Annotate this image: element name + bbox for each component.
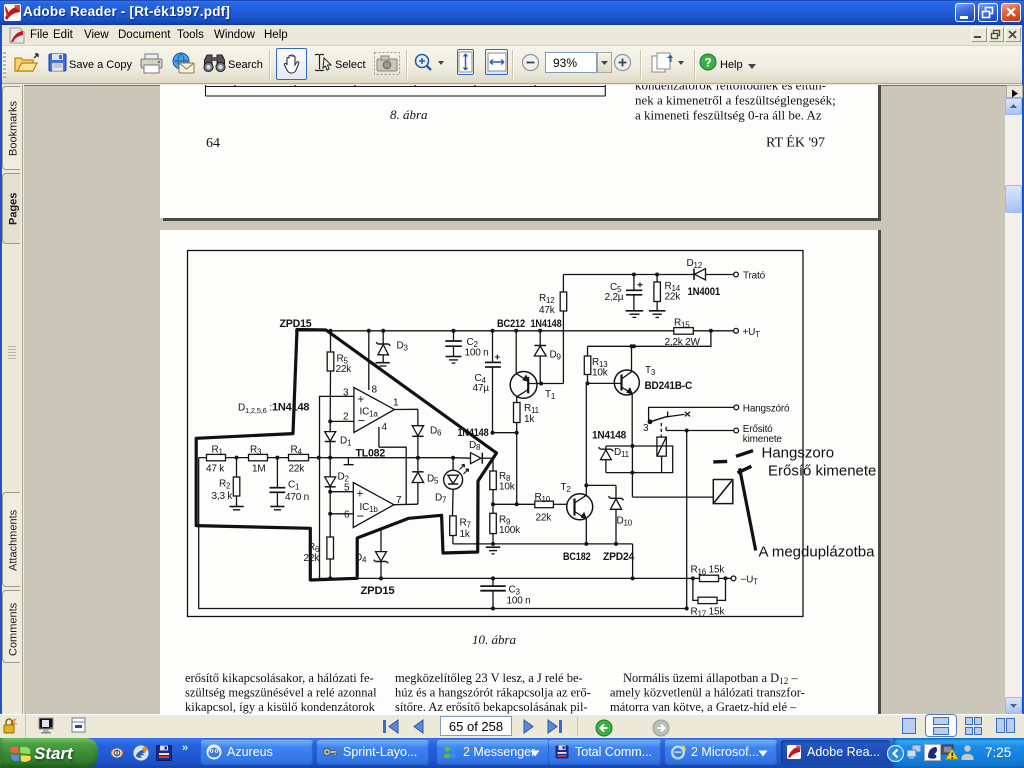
fit page btn <box>457 49 474 75</box>
wire: D11 / coil parallel box <box>606 446 673 473</box>
wire: top supply rail to D12 <box>563 274 693 276</box>
nav: prev page <box>410 718 426 740</box>
wire: T2 collector to D10 <box>586 484 616 486</box>
diode D5 1N4148 <box>412 458 423 505</box>
wire: Erősítő kimenete contact line <box>666 427 733 431</box>
svg-text:1N4001: 1N4001 <box>688 286 721 298</box>
svg-text:+UT: +UT <box>743 327 761 339</box>
svg-text:R12: R12 <box>539 293 555 305</box>
wire: R12 top vertical <box>562 275 564 293</box>
svg-text:22k: 22k <box>665 292 682 303</box>
svg-text:−UT: −UT <box>741 575 759 587</box>
svg-text:R4: R4 <box>291 445 303 457</box>
snapshot <box>374 52 400 80</box>
svg-text:megközelítőleg 23 V lesz, a J: megközelítőleg 23 V lesz, a J relé be- <box>395 671 583 685</box>
terminal +UT <box>734 328 739 333</box>
nav: forward view (disabled) <box>652 719 670 742</box>
terminal Trató <box>734 272 739 277</box>
wire: relay contact feed from Hangszóró line <box>649 407 734 420</box>
zoom-in tool + arrow <box>413 52 447 79</box>
wire: IC1b pin6 input <box>330 513 353 515</box>
resistor R13 <box>584 346 591 383</box>
svg-text:1N4148: 1N4148 <box>592 430 626 442</box>
svg-text:2,2µ: 2,2µ <box>605 292 624 303</box>
svg-text:D9: D9 <box>550 350 562 362</box>
svg-text:?: ? <box>704 56 711 70</box>
junction dots <box>235 273 728 611</box>
svg-text:ZPD24: ZPD24 <box>603 551 635 563</box>
toolbar chevron button top-right <box>1006 85 1023 98</box>
resistor R12 <box>560 292 567 384</box>
resistor R9 <box>490 504 497 544</box>
wire: node drop to R8/R10 node <box>516 433 518 505</box>
zoom out circle <box>521 53 540 77</box>
svg-text:Attachments: Attachments <box>8 509 20 571</box>
terminal Hangszóró <box>734 405 739 410</box>
nav: next page <box>521 718 537 740</box>
svg-text:+: + <box>358 394 365 406</box>
svg-text:D1,2,5,6 :1N4148: D1,2,5,6 :1N4148 <box>238 402 309 416</box>
svg-text:Trató: Trató <box>743 271 766 282</box>
svg-text:Comments: Comments <box>8 602 20 656</box>
resistor R1 <box>207 454 226 460</box>
svg-text:D5: D5 <box>427 474 439 486</box>
page display mode <box>650 52 688 79</box>
svg-text:C1: C1 <box>288 480 300 492</box>
transistor T3 BD241B-C <box>614 346 639 446</box>
diode D9 1N4148 <box>534 331 546 384</box>
svg-text:D10: D10 <box>617 516 633 528</box>
wire: IC1a pin3 input <box>320 396 354 578</box>
93% box <box>545 52 597 73</box>
wire: T2 collector long vertical <box>585 383 587 495</box>
schematic outer border frame <box>188 251 804 617</box>
svg-text:10k: 10k <box>592 368 609 379</box>
svg-text:kondenzátorok feltöltődnek és: kondenzátorok feltöltődnek és eltün- <box>635 85 826 93</box>
svg-text:3,3 k: 3,3 k <box>212 491 234 502</box>
svg-text:D6: D6 <box>430 426 442 438</box>
svg-text:T1: T1 <box>545 389 556 401</box>
wire: emitter ground rail <box>453 543 633 545</box>
svg-text:R16 15k: R16 15k <box>691 564 726 576</box>
svg-text:100k: 100k <box>499 525 521 536</box>
diode D1 <box>325 421 336 457</box>
transistor T1 BC212 <box>510 331 537 403</box>
svg-text:1M: 1M <box>252 464 266 475</box>
op-amp IC1a <box>354 331 418 504</box>
search binoculars <box>203 52 226 79</box>
resistor R8 <box>490 458 497 504</box>
wire: T3 base <box>588 382 622 384</box>
svg-text:R7: R7 <box>460 518 472 530</box>
svg-text:Hangszoro: Hangszoro <box>762 445 835 462</box>
zener D4 ZPD15 <box>374 529 389 578</box>
capacitor C1 with ground <box>270 458 286 510</box>
svg-text:4: 4 <box>382 422 388 433</box>
transistor T2 BC182 <box>567 494 593 544</box>
svg-text:Pages: Pages <box>8 193 20 225</box>
terminal -UT <box>731 576 736 581</box>
svg-text:A megduplázotba: A megduplázotba <box>759 544 876 561</box>
resistor R2 with ground <box>230 458 244 510</box>
resistor R5 <box>327 331 334 422</box>
svg-text:kimenete: kimenete <box>743 434 783 445</box>
select tool <box>313 53 333 78</box>
wire: ZPD15 zero rail <box>320 577 693 579</box>
padlock status icon <box>3 717 18 740</box>
svg-text:47µ: 47µ <box>473 383 490 394</box>
wire: D2/R6 column <box>329 492 331 537</box>
svg-text:R2: R2 <box>219 479 231 491</box>
svg-text:RT ÉK '97: RT ÉK '97 <box>766 134 825 151</box>
component value labels <box>206 258 790 619</box>
svg-text:kikapcsol, így a kisülő konden: kikapcsol, így a kisülő kondenzátorok <box>185 700 376 714</box>
svg-text:3: 3 <box>343 388 349 399</box>
fit width btn <box>485 49 508 75</box>
svg-text:8: 8 <box>372 385 378 396</box>
zener D3 ZPD15 with ground <box>376 331 391 366</box>
svg-text:D1: D1 <box>340 436 352 448</box>
pencil arrow line to A megduplázotba <box>740 468 756 550</box>
svg-text:a kimeneti feszültség 0-ra áll: a kimeneti feszültség 0-ra áll be. Az <box>635 108 822 123</box>
capacitor C5 <box>626 275 643 311</box>
wire: main +UT rail <box>295 330 674 332</box>
svg-text:TL082: TL082 <box>356 448 386 460</box>
svg-text:BC182: BC182 <box>563 551 591 563</box>
resistor R15 <box>674 328 734 335</box>
svg-text:+: + <box>357 489 364 501</box>
resistor R17 parallel branch <box>693 578 726 603</box>
svg-text:szültség megszünésével a relé: szültség megszünésével a relé azonnal <box>185 686 377 700</box>
svg-text:10. ábra: 10. ábra <box>472 632 517 647</box>
resistor R6 <box>327 537 334 578</box>
system tray <box>893 738 1024 768</box>
svg-text:3: 3 <box>643 423 649 434</box>
wire: R8 bottom node <box>493 503 517 505</box>
zoom in circle <box>613 53 632 77</box>
wire: -UT bottom rail <box>199 458 687 609</box>
svg-text:BC212: BC212 <box>497 318 525 330</box>
wire: input resistor row <box>199 457 453 459</box>
svg-text:R17 15k: R17 15k <box>691 607 726 619</box>
thick lasso pen annotation <box>196 330 496 581</box>
svg-text:ZPD15: ZPD15 <box>361 585 395 597</box>
svg-text:Hangszóró: Hangszóró <box>743 404 790 415</box>
svg-text:1k: 1k <box>524 414 535 425</box>
terminal Erősítő kimenete <box>734 428 739 433</box>
svg-text:7: 7 <box>396 495 402 506</box>
nav: last page <box>545 718 565 740</box>
task buttons <box>201 740 313 765</box>
svg-text:100 n: 100 n <box>465 348 489 359</box>
svg-text:T2: T2 <box>561 482 572 494</box>
resistor R4 <box>289 454 309 460</box>
window icon <box>71 717 87 739</box>
resistor R7 <box>450 516 457 544</box>
monitor icon <box>38 717 55 740</box>
svg-text:8. ábra: 8. ábra <box>390 107 428 122</box>
svg-text:D3: D3 <box>397 341 409 353</box>
svg-text:100 n: 100 n <box>507 596 531 607</box>
svg-text:R10: R10 <box>535 492 551 504</box>
nav: back view <box>595 719 613 742</box>
ground below R14 <box>649 311 666 318</box>
ground below C2 <box>446 357 462 364</box>
svg-text:470 n: 470 n <box>285 492 309 503</box>
page 2 bottom text columns <box>185 671 805 714</box>
svg-text:47 k: 47 k <box>206 464 225 475</box>
resistor R11 <box>514 403 521 433</box>
svg-text:D7: D7 <box>435 493 447 505</box>
svg-text:22k: 22k <box>336 364 353 375</box>
wire: junction down to -UT rail <box>686 431 688 609</box>
figure 8 bottom frame <box>206 85 606 96</box>
zener diode D10 ZPD24 <box>608 485 623 544</box>
view mode icons right <box>902 718 916 739</box>
capacitor C4 electrolytic <box>485 331 501 433</box>
LED D7 <box>444 458 469 516</box>
relay armature dashed link <box>660 423 662 437</box>
pencil dash mark 2 <box>736 451 753 457</box>
wire: IC1a pin2 input <box>330 420 354 422</box>
resistor R3 <box>249 454 268 460</box>
open icon <box>13 52 39 79</box>
svg-text:1k: 1k <box>460 529 471 540</box>
relay coil <box>657 437 666 473</box>
save a copy <box>48 52 68 79</box>
svg-text:erősítő kikapcsolásakor, a hál: erősítő kikapcsolásakor, a hálózati fe- <box>185 671 374 685</box>
capacitor C2 <box>445 331 462 356</box>
svg-text:D12: D12 <box>687 258 703 270</box>
email <box>171 52 195 79</box>
help <box>699 53 717 76</box>
svg-text:Bookmarks: Bookmarks <box>8 100 20 156</box>
svg-text:10k: 10k <box>499 482 516 493</box>
svg-text:mátorra van kötve, a Graetz-hí: mátorra van kötve, a Graetz-híd elé – <box>610 700 797 714</box>
svg-text:amely közvetlenül a hálózati t: amely közvetlenül a hálózati transzfor- <box>610 686 805 700</box>
svg-text:22k: 22k <box>536 513 553 524</box>
svg-text:5: 5 <box>344 483 350 494</box>
quick launch icons <box>108 744 126 767</box>
relay switch arm with x mark <box>648 412 690 424</box>
resistor R14 <box>654 275 661 311</box>
svg-text:R15: R15 <box>674 318 690 330</box>
resistor R10 <box>517 501 567 508</box>
svg-text:BD241B-C: BD241B-C <box>645 380 693 392</box>
pencil dash mark 1 <box>713 460 727 464</box>
ground below R9 <box>486 547 500 554</box>
start button <box>0 738 98 768</box>
svg-text:2,2k 2W: 2,2k 2W <box>665 337 701 348</box>
svg-text:D11: D11 <box>614 447 630 459</box>
svg-text:1N4148: 1N4148 <box>531 318 562 330</box>
svg-text:Normális üzemi állapotban a D1: Normális üzemi állapotban a D12 – <box>623 671 798 686</box>
ground tick at D1/D2 node <box>330 458 353 465</box>
svg-text:47k: 47k <box>539 305 556 316</box>
wire: C4/R11 node <box>493 432 517 434</box>
nav: first page <box>382 718 402 740</box>
svg-text:húz és a hangszórót rákapcsolj: húz és a hangszórót rákapcsolja az erő- <box>395 686 591 700</box>
hand tool (selected) <box>276 48 307 80</box>
speaker / load box <box>713 480 733 504</box>
zener diode D11 <box>599 446 614 473</box>
wire: T3 emitter through box to speaker feed <box>632 446 713 497</box>
diode D6 1N4148 <box>412 409 423 457</box>
resistor R16 <box>693 575 731 581</box>
svg-text:nek a kimenetről a feszültségl: nek a kimenetről a feszültséglengesék; <box>635 93 836 108</box>
svg-text:T3: T3 <box>645 365 656 377</box>
svg-text:6: 6 <box>344 510 350 521</box>
svg-text:22k: 22k <box>289 464 306 475</box>
svg-text:R3: R3 <box>250 445 262 457</box>
diode D2 <box>325 458 336 492</box>
svg-text:sítőre. Az erősítő bekapcsolás: sítőre. Az erősítő bekapcsolásának pil- <box>395 700 588 714</box>
wire: rail drop to -UT rail <box>632 544 634 579</box>
wire: +UT junction down to T3 collector feed <box>588 331 711 347</box>
capacitor C3 <box>480 578 505 608</box>
svg-text:64: 64 <box>206 136 220 151</box>
svg-text:IC1a: IC1a <box>360 407 379 419</box>
svg-text:IC1b: IC1b <box>360 502 379 514</box>
svg-text:2: 2 <box>343 412 349 423</box>
print <box>140 53 164 79</box>
svg-text:1: 1 <box>393 398 399 409</box>
pencil arrowhead mark <box>738 466 752 473</box>
wire: IC1b pin5 input <box>330 491 353 493</box>
svg-text:Erősíő kimenete: Erősíő kimenete <box>768 463 876 480</box>
wire: T1 base node to R12 <box>529 383 563 385</box>
diode D12 1N4001 <box>694 269 734 280</box>
svg-text:R1: R1 <box>212 445 224 457</box>
ground below C5 <box>626 311 644 318</box>
op-amp IC1b <box>353 483 418 528</box>
diode D8 1N4148 <box>453 453 493 464</box>
